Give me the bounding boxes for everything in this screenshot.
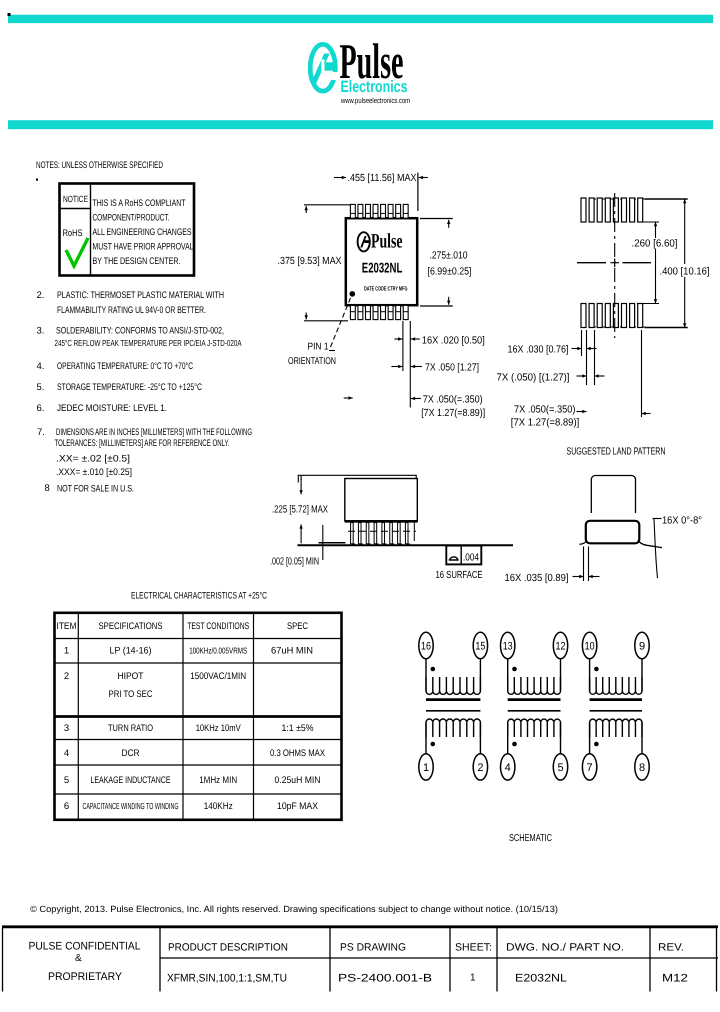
- svg-text:100KHz/0.005VRMS: 100KHz/0.005VRMS: [189, 646, 247, 656]
- dim 7X .050 arrows: [391, 366, 402, 368]
- land pattern bottom edge solid extension: [645, 327, 688, 329]
- side view lead 3: [366, 523, 369, 544]
- land pad bottom 8: [638, 304, 643, 328]
- svg-text:PULSE CONFIDENTIAL: PULSE CONFIDENTIAL: [29, 941, 141, 953]
- dim .260 vertical line: [655, 222, 657, 236]
- svg-text:PRODUCT DESCRIPTION: PRODUCT DESCRIPTION: [168, 942, 288, 954]
- svg-text:.004: .004: [463, 553, 479, 564]
- dim .375 bottom arrowhead: [305, 313, 307, 320]
- bottom pin 8: [403, 305, 408, 319]
- svg-text:E2032NL: E2032NL: [362, 261, 403, 277]
- land pad top 5: [613, 198, 618, 222]
- land pad bottom 4: [605, 304, 610, 328]
- svg-text:16: 16: [421, 641, 431, 653]
- svg-text:7X .050(=.350): 7X .050(=.350): [423, 395, 483, 406]
- T3 pin 10 circle: [582, 632, 596, 658]
- dim .225 vertical line bottom: [300, 523, 302, 525]
- svg-text:67uH MIN: 67uH MIN: [271, 646, 313, 657]
- svg-text:[6.99±0.25]: [6.99±0.25]: [428, 267, 472, 278]
- svg-text:REV.: REV.: [658, 942, 684, 954]
- svg-text:© Copyright, 2013. Pulse Elec: © Copyright, 2013. Pulse Electronics, In…: [30, 904, 558, 914]
- svg-text:SOLDERABILITY: CONFORMS TO ANS: SOLDERABILITY: CONFORMS TO ANSI/J-STD-00…: [56, 326, 224, 337]
- svg-text:16X 0°-8°: 16X 0°-8°: [662, 516, 702, 527]
- top pin 9: [403, 204, 408, 218]
- svg-text:SHEET:: SHEET:: [455, 942, 492, 954]
- dim .455 right extension line: [417, 173, 419, 211]
- T2 core line 1: [508, 698, 561, 701]
- svg-text:DCR: DCR: [122, 748, 140, 759]
- land extension line pad1 right: [586, 330, 588, 385]
- svg-text:1: 1: [423, 762, 429, 774]
- dim .225 vertical line top: [300, 478, 302, 494]
- svg-text:PS-2400.001-B: PS-2400.001-B: [338, 973, 432, 985]
- title block verticals: [2, 928, 4, 992]
- svg-text:TEST CONDITIONS: TEST CONDITIONS: [187, 621, 249, 632]
- svg-text:0.3 OHMS MAX: 0.3 OHMS MAX: [270, 748, 326, 759]
- svg-text:1: 1: [470, 973, 476, 984]
- Pulse logo ellipse: [310, 44, 335, 91]
- side view lead 2: [358, 523, 361, 544]
- svg-text:16X .020 [0.50]: 16X .020 [0.50]: [422, 336, 485, 347]
- title block header divider: [160, 957, 718, 959]
- land pad top 1: [581, 198, 586, 222]
- T2 pin 13 circle: [501, 632, 515, 658]
- angle reference line: [654, 519, 658, 578]
- land extension line pad1 left: [581, 330, 583, 356]
- land pattern horizontal centerline left: [577, 262, 606, 264]
- svg-text:PS DRAWING: PS DRAWING: [340, 942, 406, 954]
- svg-text:3: 3: [64, 723, 69, 734]
- svg-text:[7X 1.27(=8.89)]: [7X 1.27(=8.89)]: [511, 418, 580, 429]
- T3 core line 2: [590, 710, 642, 712]
- T2 secondary polarity dot: [512, 742, 517, 747]
- svg-text:1500VAC/1MIN: 1500VAC/1MIN: [190, 671, 246, 682]
- land pad top 4: [605, 198, 610, 222]
- svg-text:COMPONENT/PRODUCT.: COMPONENT/PRODUCT.: [93, 213, 170, 224]
- T2 core line 2: [508, 710, 561, 712]
- land pad top 3: [597, 198, 602, 222]
- svg-text:.XX= ±.02 [±0.5]: .XX= ±.02 [±0.5]: [56, 454, 130, 465]
- svg-text:LP (14-16): LP (14-16): [110, 646, 152, 657]
- T2 pin 4 circle: [501, 754, 515, 780]
- top pin 12: [381, 204, 386, 218]
- dim .275 bottom arrowhead: [448, 297, 450, 305]
- svg-text:www.pulseelectronics.com: www.pulseelectronics.com: [340, 96, 410, 105]
- side view body bottom thick edge: [345, 520, 418, 523]
- top pin 15: [358, 204, 363, 218]
- standoff line: [319, 542, 346, 544]
- land pad top 6: [622, 198, 627, 222]
- svg-text:SUGGESTED LAND PATTERN: SUGGESTED LAND PATTERN: [567, 447, 666, 458]
- land pattern vertical centerline: [614, 193, 616, 338]
- dim .375 top arrowhead: [305, 206, 307, 213]
- side view last lead edge: [413, 523, 415, 541]
- svg-text:JEDEC MOISTURE: LEVEL 1.: JEDEC MOISTURE: LEVEL 1.: [57, 403, 167, 414]
- svg-text:PIN 1: PIN 1: [308, 342, 329, 353]
- dim .375 bottom extension line: [304, 320, 348, 322]
- land pad top 8: [638, 198, 643, 222]
- side view top reference line: [298, 474, 417, 476]
- svg-text:10: 10: [585, 641, 595, 653]
- land pattern bottom pad row dashed edge: [590, 326, 648, 328]
- dim .375 top extension line: [304, 204, 350, 206]
- svg-text:7X (.050) [(1.27)]: 7X (.050) [(1.27)]: [497, 373, 570, 384]
- top pin 11: [388, 204, 393, 218]
- svg-text:3.: 3.: [37, 326, 45, 337]
- svg-text:245°C REFLOW PEAK TEMPERATURE: 245°C REFLOW PEAK TEMPERATURE PER IPC/EI…: [55, 338, 242, 348]
- svg-text:NOTES: UNLESS OTHERWISE SPECIF: NOTES: UNLESS OTHERWISE SPECIFIED: [36, 160, 163, 171]
- T1 secondary polarity dot: [431, 742, 436, 747]
- side view lead 8: [405, 523, 408, 544]
- dim .400 vertical line: [684, 199, 686, 213]
- svg-text:4: 4: [64, 748, 69, 759]
- side view body: [345, 479, 418, 522]
- land pad bottom 1: [581, 304, 586, 328]
- flatness symbol: [449, 557, 459, 560]
- svg-text:5.: 5.: [37, 382, 45, 393]
- RoHS notice box: [60, 184, 195, 276]
- svg-text:.275±.010: .275±.010: [430, 251, 468, 262]
- svg-text:PRI TO SEC: PRI TO SEC: [109, 689, 153, 700]
- svg-text:ORIENTATION: ORIENTATION: [288, 356, 336, 367]
- side view lead 7: [398, 523, 401, 544]
- svg-text:.400 [10.16]: .400 [10.16]: [660, 267, 710, 278]
- svg-text:XFMR,SIN,100,1:1,SM,TU: XFMR,SIN,100,1:1,SM,TU: [167, 973, 287, 985]
- svg-text:HIPOT: HIPOT: [118, 671, 144, 682]
- svg-text:6: 6: [64, 801, 69, 812]
- bottom pin 1: [350, 305, 355, 319]
- svg-text:2: 2: [64, 671, 69, 682]
- svg-text:9: 9: [639, 641, 645, 653]
- notice box divider horizontal: [60, 208, 91, 210]
- flatness feature box: [446, 546, 481, 565]
- svg-text:NOTICE: NOTICE: [63, 194, 88, 204]
- svg-text:[7X 1.27(=8.89)]: [7X 1.27(=8.89)]: [421, 408, 485, 419]
- pitch extension line A: [402, 321, 404, 371]
- svg-text:7: 7: [587, 762, 593, 774]
- side view lead 5: [382, 523, 385, 544]
- T3 pin 7 circle: [582, 754, 596, 780]
- T3 secondary polarity dot: [594, 742, 599, 747]
- svg-text:PROPRIETARY: PROPRIETARY: [48, 971, 123, 983]
- svg-text:MUST HAVE PRIOR APPROVAL: MUST HAVE PRIOR APPROVAL: [93, 242, 194, 253]
- svg-text:SPECIFICATIONS: SPECIFICATIONS: [99, 621, 163, 632]
- T3 pin 9 circle: [635, 632, 649, 658]
- side view lead 4: [374, 523, 377, 544]
- pin 1 leader dashed: [331, 296, 352, 348]
- table column dividers: [77, 613, 79, 820]
- dim .275 top arrowhead: [448, 220, 450, 228]
- svg-text:10pF MAX: 10pF MAX: [277, 801, 319, 812]
- end view body: [591, 476, 635, 514]
- title block top border: [2, 925, 718, 928]
- svg-text:.260 [6.60]: .260 [6.60]: [632, 239, 678, 250]
- corner mark: [8, 13, 11, 16]
- bottom pin 3: [366, 305, 371, 319]
- svg-text:7X .050(=.350): 7X .050(=.350): [514, 405, 576, 416]
- svg-text:1:1 ±5%: 1:1 ±5%: [282, 723, 315, 734]
- T1 core line 2: [426, 710, 480, 712]
- svg-text:4: 4: [505, 762, 511, 774]
- T1 pin 2 circle: [473, 754, 487, 780]
- T2 pin 5 circle: [553, 754, 567, 780]
- svg-text:8: 8: [45, 483, 50, 494]
- svg-text:DIMENSIONS ARE IN INCHES [MILL: DIMENSIONS ARE IN INCHES [MILLIMETERS] W…: [56, 427, 252, 438]
- T1 secondary winding: [426, 719, 480, 754]
- green checkmark: [66, 238, 88, 266]
- bottom pin 7: [396, 305, 401, 319]
- lead width extension lines: [583, 547, 585, 582]
- svg-text:.XXX= ±.010 [±0.25]: .XXX= ±.010 [±0.25]: [56, 467, 132, 478]
- land pad bottom 6: [622, 304, 627, 328]
- top teal bar: [8, 15, 713, 23]
- top pin 10: [396, 204, 401, 218]
- svg-text:5: 5: [557, 762, 563, 774]
- svg-text:2: 2: [477, 762, 483, 774]
- side view dashed line through leads: [348, 530, 416, 532]
- note 1 dot: [36, 179, 38, 181]
- dim 16X .020 arrows: [394, 338, 402, 340]
- bottom pin 6: [388, 305, 393, 319]
- end view lead bar: [586, 521, 640, 544]
- dim .260 extension ticks: [637, 221, 659, 223]
- T2 primary winding: [508, 659, 561, 695]
- dim .275 bottom extension line: [420, 305, 453, 307]
- pin 1 orientation dot: [350, 291, 356, 297]
- svg-text:4.: 4.: [37, 361, 45, 372]
- T3 pin 8 circle: [635, 754, 649, 780]
- svg-text:THIS IS A RoHS COMPLIANT: THIS IS A RoHS COMPLIANT: [93, 198, 186, 209]
- svg-text:1MHz MIN: 1MHz MIN: [199, 775, 237, 786]
- svg-text:2.: 2.: [37, 290, 45, 301]
- svg-text:LEAKAGE INDUCTANCE: LEAKAGE INDUCTANCE: [91, 775, 171, 786]
- top pin 13: [373, 204, 378, 218]
- svg-text:SPEC: SPEC: [287, 621, 308, 632]
- svg-text:NOT FOR SALE IN U.S.: NOT FOR SALE IN U.S.: [57, 484, 134, 495]
- svg-text:8: 8: [639, 762, 645, 774]
- svg-text:STORAGE TEMPERATURE: -25°C TO: STORAGE TEMPERATURE: -25°C TO +125°C: [57, 382, 202, 393]
- dim .275 top extension line: [420, 218, 453, 220]
- svg-text:.225 [5.72] MAX: .225 [5.72] MAX: [272, 505, 328, 516]
- svg-text:10KHz 10mV: 10KHz 10mV: [196, 723, 242, 734]
- bottom pin 4: [373, 305, 378, 319]
- svg-text:6.: 6.: [37, 403, 45, 414]
- dim 7X .050=.350 right arrow: [411, 398, 421, 400]
- svg-text:140KHz: 140KHz: [204, 801, 233, 812]
- T3 secondary winding: [590, 719, 642, 754]
- svg-text:12: 12: [556, 641, 566, 653]
- svg-text:SCHEMATIC: SCHEMATIC: [509, 833, 552, 844]
- Pulse logo gap whitening: [321, 60, 324, 73]
- side view lead 6: [390, 523, 393, 544]
- svg-text:M12: M12: [662, 973, 688, 985]
- T3 primary winding: [590, 659, 642, 695]
- svg-text:16X .035 [0.89]: 16X .035 [0.89]: [505, 573, 569, 584]
- svg-text:CAPACITANCE WINDING TO WINDING: CAPACITANCE WINDING TO WINDING: [83, 801, 179, 811]
- land pad bottom 5: [613, 304, 618, 328]
- land pad bottom 3: [597, 304, 602, 328]
- T1 primary winding: [426, 659, 480, 695]
- bottom pin 5: [381, 305, 386, 319]
- svg-text:FLAMMABILITY RATING UL 94V-0 O: FLAMMABILITY RATING UL 94V-0 OR BETTER.: [57, 305, 206, 316]
- svg-text:16 SURFACE: 16 SURFACE: [436, 570, 483, 581]
- dim .002 tick: [322, 525, 324, 560]
- svg-text:5: 5: [64, 775, 69, 786]
- component body top view: [346, 218, 417, 305]
- table row lines: [55, 638, 341, 640]
- svg-text:Pulse: Pulse: [371, 231, 403, 253]
- svg-text:ITEM: ITEM: [57, 621, 77, 632]
- land pattern horizontal centerline right: [623, 262, 652, 264]
- land pad bottom 2: [589, 304, 594, 328]
- svg-text:ALL ENGINEERING CHANGES: ALL ENGINEERING CHANGES: [93, 227, 192, 238]
- land pad bottom 7: [630, 304, 635, 328]
- body logo zigzag: [360, 236, 366, 248]
- land pad top 2: [589, 198, 594, 222]
- svg-text:E2032NL: E2032NL: [515, 973, 567, 985]
- top pin 16: [350, 204, 355, 218]
- svg-text:DWG. NO./ PART NO.: DWG. NO./ PART NO.: [506, 942, 624, 954]
- second teal bar: [8, 120, 713, 129]
- land pattern top pad row dashed edge: [590, 198, 648, 200]
- T1 pin 16 circle: [419, 632, 433, 658]
- dim 7X .050=.350 left arrow: [344, 397, 353, 399]
- svg-text:ELECTRICAL CHARACTERISTICS AT: ELECTRICAL CHARACTERISTICS AT +25°C: [131, 591, 267, 602]
- T2 secondary winding: [508, 719, 561, 754]
- svg-text:.375 [9.53] MAX: .375 [9.53] MAX: [278, 256, 342, 267]
- T3 primary polarity dot: [594, 667, 599, 672]
- angle leader dash: [653, 518, 662, 520]
- dim .455 right arrow: [419, 177, 428, 179]
- svg-text:&: &: [75, 953, 82, 964]
- svg-text:Electronics: Electronics: [341, 78, 408, 96]
- svg-text:16X .030 [0.76]: 16X .030 [0.76]: [508, 345, 569, 356]
- seating plane line: [298, 544, 514, 546]
- side view lead 1: [351, 523, 354, 544]
- T1 primary polarity dot: [431, 667, 436, 672]
- T1 core line 1: [426, 698, 480, 701]
- table outer border: [55, 613, 342, 820]
- Pulse logo bar: [324, 62, 337, 70]
- svg-text:PLASTIC: THERMOSET PLASTIC MAT: PLASTIC: THERMOSET PLASTIC MATERIAL WITH: [57, 290, 224, 301]
- top pin 14: [366, 204, 371, 218]
- svg-text:OPERATING TEMPERATURE: 0°C TO: OPERATING TEMPERATURE: 0°C TO +70°C: [57, 361, 193, 372]
- svg-text:15: 15: [475, 641, 485, 653]
- T3 core line 1: [590, 698, 642, 701]
- land pad top 7: [630, 198, 635, 222]
- Pulse logo zigzag diagonal: [311, 54, 330, 84]
- svg-text:7.: 7.: [37, 427, 45, 438]
- svg-text:7X .050 [1.27]: 7X .050 [1.27]: [425, 363, 479, 374]
- land extension line pad8: [641, 330, 643, 417]
- land pattern top edge solid extension: [645, 198, 688, 200]
- T2 primary polarity dot: [512, 667, 517, 672]
- bottom pin 2: [358, 305, 363, 319]
- end view lead left foot: [580, 540, 588, 544]
- svg-text:BY THE DESIGN CENTER.: BY THE DESIGN CENTER.: [93, 256, 181, 267]
- T2 pin 12 circle: [553, 632, 567, 658]
- svg-text:DATE CODE CTRY MFG: DATE CODE CTRY MFG: [364, 286, 408, 293]
- svg-text:TOLERANCES: [MILLIMETERS] ARE: TOLERANCES: [MILLIMETERS] ARE FOR REFERE…: [55, 438, 230, 449]
- svg-text:.455 [11.56] MAX: .455 [11.56] MAX: [348, 173, 417, 184]
- svg-text:0.25uH MIN: 0.25uH MIN: [275, 775, 321, 786]
- dim .455 left arrow: [334, 177, 346, 179]
- pitch extension line B: [409, 321, 411, 408]
- svg-text:.002 [0.05] MIN: .002 [0.05] MIN: [270, 557, 319, 568]
- T1 pin 1 circle: [419, 754, 433, 780]
- svg-text:13: 13: [503, 641, 513, 653]
- T1 pin 15 circle: [473, 632, 487, 658]
- body logo circle: [358, 232, 370, 251]
- land pattern center cross: [611, 262, 620, 264]
- svg-text:RoHS: RoHS: [63, 228, 83, 239]
- land extension line pad2: [594, 330, 596, 385]
- svg-text:TURN RATIO: TURN RATIO: [108, 723, 153, 734]
- svg-text:1: 1: [64, 646, 69, 657]
- notice box divider vertical: [90, 184, 92, 276]
- end view lead right foot: [638, 540, 662, 548]
